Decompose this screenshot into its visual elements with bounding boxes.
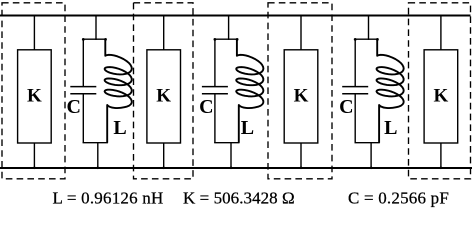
- svg-text:C: C: [66, 96, 80, 118]
- node: top bar left corner: [82, 38, 85, 41]
- wire: K3 bottom stem: [300, 143, 302, 168]
- wire: capacitor upper lead: [354, 39, 356, 86]
- wire: K1 bottom stem: [33, 143, 35, 168]
- svg-text:K: K: [434, 85, 449, 106]
- node: top bar right corner: [104, 38, 107, 41]
- impedance inverter K4 box: [424, 50, 458, 143]
- node: K2 bottom junction: [162, 167, 165, 170]
- wire: K4 top stem: [440, 16, 442, 50]
- capacitor C top plate: [202, 86, 228, 88]
- svg-text:C: C: [339, 96, 353, 118]
- wire: K1 top stem: [33, 16, 35, 50]
- svg-text:L: L: [384, 117, 397, 139]
- inductor L coil: [377, 39, 404, 143]
- svg-text:C = 0.2566 pF: C = 0.2566 pF: [348, 188, 449, 207]
- wire: capacitor lower lead: [214, 94, 216, 143]
- svg-text:L: L: [113, 117, 126, 139]
- svg-text:L = 0.96126 nH: L = 0.96126 nH: [53, 188, 164, 207]
- node: top bar right corner: [376, 38, 379, 41]
- bottom rail wire: [0, 167, 472, 169]
- wire: resonator top stem: [368, 16, 370, 40]
- wire: K2 bottom stem: [163, 143, 165, 168]
- node: K3 bottom junction: [300, 167, 303, 170]
- svg-text:C: C: [199, 96, 213, 118]
- svg-text:K: K: [156, 85, 171, 106]
- wire: resonator bottom stem: [370, 143, 372, 169]
- node: top bar left corner: [354, 38, 357, 41]
- node: bottom stem junction: [230, 167, 233, 170]
- wire: resonator bottom stem: [97, 143, 99, 169]
- dashed box around inverter K2: [134, 3, 194, 179]
- svg-text:K: K: [27, 85, 42, 106]
- node: bottom stem junction: [97, 167, 100, 170]
- wire: capacitor lower lead: [82, 94, 84, 143]
- wire: resonator top stem: [228, 16, 230, 40]
- svg-text:L: L: [241, 117, 254, 139]
- svg-text:K: K: [294, 85, 309, 106]
- dashed box around inverter K1: [2, 3, 65, 179]
- wire: resonator top bar: [355, 38, 379, 40]
- node: bottom stem junction: [370, 167, 373, 170]
- wire: resonator top bar: [83, 38, 107, 40]
- dashed box around inverter K4: [409, 3, 471, 179]
- inductor L coil: [236, 39, 263, 143]
- capacitor C bottom plate: [342, 93, 368, 95]
- dashed box around inverter K3: [268, 3, 332, 179]
- svg-text:K = 506.3428 Ω: K = 506.3428 Ω: [183, 188, 295, 207]
- capacitor C top plate: [70, 86, 96, 88]
- node: K4 bottom junction: [440, 167, 443, 170]
- wire: K4 bottom stem: [440, 143, 442, 168]
- impedance inverter K2 box: [147, 50, 181, 143]
- wire: resonator bottom stem: [230, 143, 232, 169]
- capacitor C bottom plate: [70, 93, 96, 95]
- top rail wire: [0, 14, 471, 16]
- capacitor C top plate: [342, 86, 368, 88]
- inductor L coil: [105, 39, 132, 143]
- wire: resonator bottom bar: [83, 142, 108, 144]
- capacitor C bottom plate: [202, 93, 228, 95]
- wire: capacitor lower lead: [354, 94, 356, 143]
- wire: capacitor upper lead: [82, 39, 84, 86]
- wire: capacitor upper lead: [214, 39, 216, 86]
- wire: resonator bottom bar: [355, 142, 380, 144]
- node: K1 bottom junction: [33, 167, 36, 170]
- wire: resonator bottom bar: [214, 142, 239, 144]
- wire: resonator top bar: [214, 38, 238, 40]
- wire: K3 top stem: [300, 16, 302, 50]
- impedance inverter K3 box: [284, 50, 318, 143]
- node: top bar right corner: [236, 38, 239, 41]
- wire: K2 top stem: [163, 16, 165, 50]
- node: top bar left corner: [214, 38, 217, 41]
- impedance inverter K1 box: [18, 50, 52, 143]
- wire: resonator top stem: [95, 16, 97, 40]
